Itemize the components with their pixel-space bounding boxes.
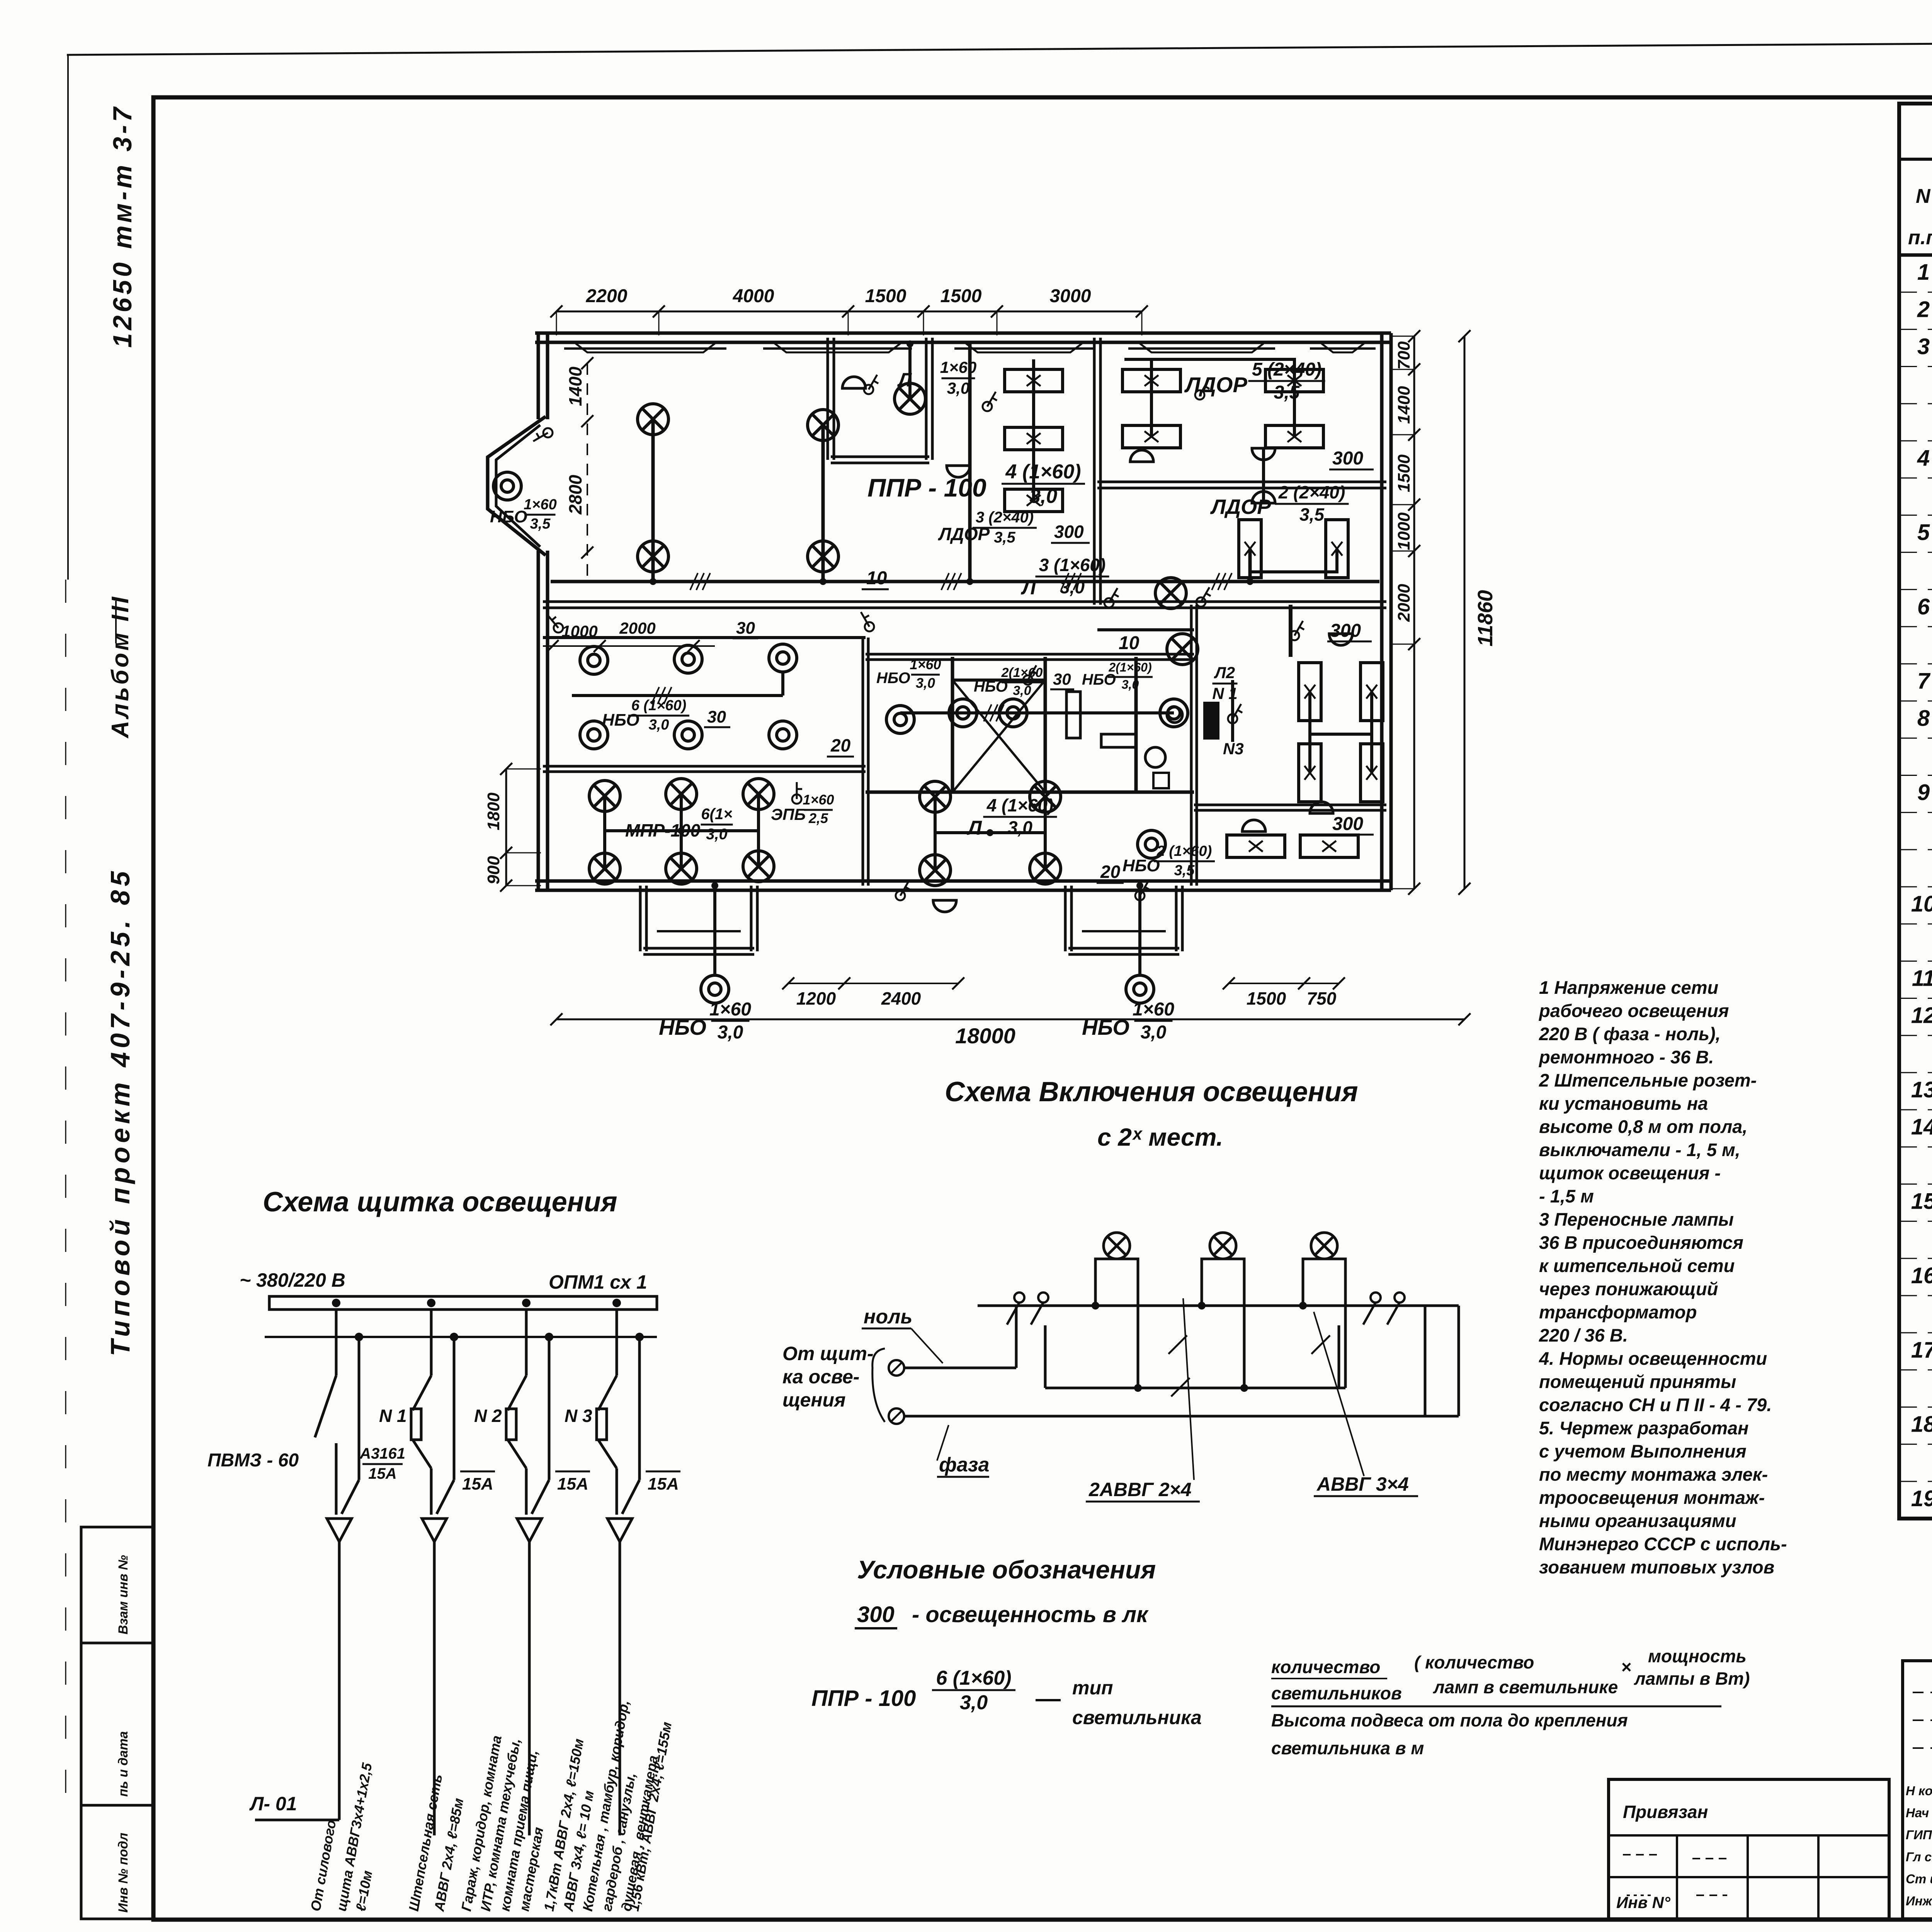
svg-text:- освещенность в лк: - освещенность в лк bbox=[912, 1602, 1149, 1627]
svg-text:НБО: НБО bbox=[876, 670, 910, 687]
svg-text:Л2: Л2 bbox=[1214, 663, 1235, 682]
svg-text:1800: 1800 bbox=[484, 793, 503, 830]
svg-text:ГИП: ГИП bbox=[1906, 1828, 1932, 1842]
ceiling fitting 6 bbox=[1329, 634, 1352, 645]
dimension chain left bbox=[484, 357, 594, 891]
label ЛДОР 2(2x40)/3,5 bbox=[1210, 482, 1349, 525]
shower stall cross box bbox=[952, 680, 1045, 792]
svg-text:18000: 18000 bbox=[955, 1024, 1015, 1048]
label 30 (top of lower-left room) bbox=[733, 619, 758, 638]
svg-text:ПВМЗ - 60: ПВМЗ - 60 bbox=[207, 1450, 299, 1471]
svg-text:1500: 1500 bbox=[1247, 988, 1286, 1009]
svg-text:N3: N3 bbox=[1223, 740, 1244, 758]
svg-text:АВВГ 3×4: АВВГ 3×4 bbox=[1316, 1473, 1409, 1495]
svg-text:1×60: 1×60 bbox=[803, 792, 834, 808]
svg-text:выключатели - 1, 5 м,: выключатели - 1, 5 м, bbox=[1539, 1139, 1740, 1160]
svg-text:Привязан: Привязан bbox=[1623, 1802, 1708, 1822]
svg-text:ЭПБ: ЭПБ bbox=[771, 805, 806, 823]
circuit lamp 1 legs bbox=[1095, 1259, 1138, 1388]
phase bus (top) bbox=[978, 1302, 1459, 1310]
main switch label ПВМЗ-60 bbox=[207, 1450, 299, 1471]
lamp L1 bbox=[638, 404, 668, 435]
svg-text:пь и дата: пь и дата bbox=[116, 1731, 131, 1797]
svg-text:НБО: НБО bbox=[659, 1015, 706, 1039]
feeder circuit 2 wires bbox=[411, 1310, 454, 1515]
svg-text:зованием типовых узлов: зованием типовых узлов bbox=[1539, 1557, 1774, 1577]
wall sconce НБО 14 bbox=[1126, 975, 1154, 1003]
svg-text:3,0: 3,0 bbox=[1141, 1022, 1167, 1043]
svg-text:НБО: НБО bbox=[1082, 1015, 1129, 1039]
label фаза bbox=[937, 1425, 989, 1477]
svg-text:6 (1×60): 6 (1×60) bbox=[631, 697, 687, 714]
svg-text:ППР - 100: ППР - 100 bbox=[867, 473, 986, 502]
svg-text:мощность: мощность bbox=[1648, 1646, 1747, 1666]
svg-text:Типовой проект 407-9-25. 85: Типовой проект 407-9-25. 85 bbox=[105, 867, 135, 1356]
wire hatch marks bbox=[651, 573, 1232, 721]
margin caption 12650 тм-т 3-7 bbox=[108, 104, 137, 348]
svg-text:300: 300 bbox=[1054, 522, 1084, 542]
svg-text:3 (2×40): 3 (2×40) bbox=[976, 509, 1034, 526]
svg-text:Ст инж: Ст инж bbox=[1906, 1872, 1932, 1886]
svg-text:13: 13 bbox=[1911, 1077, 1932, 1102]
svg-text:×: × bbox=[1621, 1657, 1631, 1677]
notes text block bbox=[1538, 977, 1787, 1577]
svg-text:2400: 2400 bbox=[881, 988, 921, 1009]
switch S12 bbox=[533, 428, 553, 441]
svg-text:1 Напряжение сети: 1 Напряжение сети bbox=[1539, 977, 1718, 998]
svg-text:2(1×60: 2(1×60 bbox=[1001, 665, 1043, 680]
wall sconce НБО 6 bbox=[674, 721, 702, 749]
feeder circuit 3 wires bbox=[506, 1310, 549, 1515]
svg-text:2: 2 bbox=[1917, 297, 1930, 322]
svg-text:светильников: светильников bbox=[1271, 1683, 1402, 1703]
switch S13 bbox=[896, 881, 910, 900]
circuit lamp 2 legs bbox=[1202, 1259, 1244, 1388]
svg-text:ламп в светильнике: ламп в светильнике bbox=[1433, 1677, 1618, 1697]
svg-text:От щит-: От щит- bbox=[782, 1343, 874, 1364]
label ЭПБ 1x60/2,5 bbox=[771, 792, 834, 826]
svg-text:7: 7 bbox=[1917, 668, 1931, 694]
switch S11 bbox=[1228, 704, 1242, 723]
label 20 (bottom) bbox=[1097, 862, 1124, 883]
svg-text:ЛДОР: ЛДОР bbox=[1210, 495, 1271, 519]
svg-text:высоте 0,8 м от пола,: высоте 0,8 м от пола, bbox=[1539, 1116, 1747, 1137]
wall sconce НБО 13 bbox=[701, 975, 729, 1003]
fluorescent fixture ЛДОР h9 bbox=[1227, 835, 1285, 857]
label 10 (right) bbox=[1115, 633, 1142, 654]
svg-text:1×60: 1×60 bbox=[524, 497, 557, 513]
svg-text:3,0: 3,0 bbox=[1013, 683, 1031, 698]
svg-text:МПР-100: МПР-100 bbox=[625, 820, 701, 840]
switch S5 bbox=[1023, 665, 1037, 685]
dimension chain top bbox=[550, 286, 1148, 335]
stamp box Инв № подл bbox=[81, 1805, 153, 1919]
window sill marks on top wall bbox=[564, 344, 1376, 352]
svg-text:2 (1×60): 2 (1×60) bbox=[1156, 843, 1212, 859]
label ЛДОР 5(2x40)/3,5 bbox=[1184, 359, 1325, 403]
feeder arrow 1 bbox=[327, 1519, 352, 1820]
svg-text:6(1×: 6(1× bbox=[701, 806, 732, 823]
fuse rating 15А bbox=[646, 1471, 680, 1493]
svg-text:светильника в м: светильника в м bbox=[1271, 1738, 1424, 1758]
cable mark АВВГ 3x4 bbox=[1311, 1312, 1418, 1496]
svg-text:Л: Л bbox=[897, 369, 912, 391]
wall sconce НБО 2 bbox=[580, 646, 608, 674]
svg-text:3,5: 3,5 bbox=[530, 516, 551, 532]
wall sconce НБО 10 bbox=[999, 699, 1027, 727]
svg-text:N 1: N 1 bbox=[1212, 684, 1237, 702]
circuit lamp 3 legs bbox=[1303, 1259, 1345, 1388]
switch S14 bbox=[1135, 881, 1150, 900]
svg-text:19: 19 bbox=[1911, 1486, 1932, 1511]
fluorescent fixture ЛДОР h4 bbox=[1122, 369, 1180, 392]
svg-text:к штепсельной сети: к штепсельной сети bbox=[1539, 1255, 1735, 1276]
svg-text:3 (1×60): 3 (1×60) bbox=[1039, 555, 1106, 575]
svg-text:300: 300 bbox=[857, 1602, 895, 1627]
svg-text:220 / 36 В.: 220 / 36 В. bbox=[1539, 1325, 1628, 1345]
lamp L11 bbox=[589, 853, 620, 884]
margin caption Типовой проект 407-9-25.85 bbox=[105, 867, 135, 1356]
svg-text:3,0: 3,0 bbox=[1122, 677, 1139, 691]
wall sconce НБО 1 bbox=[493, 472, 521, 500]
svg-text:6: 6 bbox=[1917, 594, 1930, 619]
label Л 3(1x60)/3,0 bbox=[1020, 555, 1109, 599]
svg-text:1: 1 bbox=[1917, 260, 1930, 285]
switch S10 bbox=[1104, 588, 1119, 607]
svg-text:- 1,5 м: - 1,5 м bbox=[1539, 1186, 1594, 1206]
ceiling fitting 2 bbox=[947, 466, 970, 477]
lamp L16 bbox=[920, 855, 951, 886]
svg-text:согласно СН и П II - 4 - 79: согласно СН и П II - 4 - 79. bbox=[1539, 1395, 1772, 1415]
svg-text:3,0: 3,0 bbox=[1008, 818, 1032, 838]
label НБО 1x60/3,0 (porch2) bbox=[1082, 999, 1174, 1043]
left 2-way switch bbox=[978, 1293, 1048, 1388]
svg-text:1×60: 1×60 bbox=[709, 999, 751, 1020]
label 300 (mid right) bbox=[1327, 621, 1372, 641]
svg-text:1×60: 1×60 bbox=[940, 358, 977, 376]
svg-text:4000: 4000 bbox=[733, 286, 774, 306]
source terminal ноль bbox=[889, 1306, 1016, 1376]
svg-text:10: 10 bbox=[866, 568, 887, 588]
svg-text:15: 15 bbox=[1911, 1189, 1932, 1214]
switch S6 bbox=[1196, 587, 1211, 607]
svg-text:3,5: 3,5 bbox=[1274, 383, 1300, 403]
svg-text:через понижающий: через понижающий bbox=[1539, 1279, 1718, 1299]
svg-text:18: 18 bbox=[1911, 1412, 1932, 1437]
svg-text:Л- 01: Л- 01 bbox=[249, 1793, 297, 1815]
wall sconce НБО 9 bbox=[949, 699, 977, 727]
svg-text:30: 30 bbox=[736, 619, 755, 638]
label ППР-100 4(1x60)/3,0 bbox=[867, 461, 1085, 507]
lamp L15 bbox=[1030, 781, 1061, 812]
wall sconce НБО 3 bbox=[674, 645, 702, 673]
svg-text:3,0: 3,0 bbox=[1060, 577, 1085, 597]
svg-text:НБО: НБО bbox=[490, 507, 527, 526]
margin caption Альбом III bbox=[107, 595, 134, 739]
feeder arrow 3 bbox=[517, 1519, 542, 1835]
label ноль bbox=[862, 1306, 943, 1363]
svg-text:троосвещения монтаж-: троосвещения монтаж- bbox=[1539, 1487, 1765, 1508]
source terminal фаза bbox=[889, 1306, 1459, 1424]
stamp box Взам. инв № bbox=[81, 1527, 153, 1643]
svg-text:Инжен: Инжен bbox=[1906, 1894, 1932, 1908]
wall sconce НБО 8 bbox=[886, 706, 914, 733]
interior walls bbox=[543, 338, 1386, 886]
lamp L6 bbox=[1155, 578, 1186, 609]
label 20 (left) bbox=[827, 735, 854, 757]
feeder label N 3 bbox=[565, 1406, 592, 1426]
svg-text:N: N bbox=[1916, 185, 1931, 207]
svg-text:Высота подвеса от пола: Высота подвеса от пола до крепления bbox=[1271, 1710, 1628, 1730]
svg-text:2 Штепсельные розет-: 2 Штепсельные розет- bbox=[1539, 1070, 1757, 1090]
feeder circuit 1 wires bbox=[315, 1310, 359, 1515]
switch S8 bbox=[792, 782, 802, 804]
formula ППР-100 6(1x60)/3,0 тип светильника bbox=[811, 1667, 1202, 1728]
panel box symbol (щиток) bbox=[1205, 703, 1218, 738]
svg-text:НБО: НБО bbox=[974, 678, 1008, 695]
switch S1 bbox=[548, 615, 563, 633]
busbar junction dots bbox=[332, 1299, 621, 1307]
svg-text:36 В присоединяются: 36 В присоединяются bbox=[1539, 1232, 1743, 1253]
svg-text:1000: 1000 bbox=[1395, 512, 1413, 550]
wall sconce НБО 7 bbox=[769, 721, 797, 749]
привязан table bbox=[1609, 1779, 1889, 1919]
svg-text:4. Нормы освещенности: 4. Нормы освещенности bbox=[1539, 1348, 1767, 1369]
circuit lamp 2 bbox=[1210, 1233, 1236, 1259]
svg-text:10: 10 bbox=[1119, 633, 1139, 653]
svg-text:Инв № подл: Инв № подл bbox=[116, 1833, 131, 1913]
svg-text:12: 12 bbox=[1911, 1003, 1932, 1028]
svg-text:2000: 2000 bbox=[1395, 584, 1413, 622]
svg-text:( количество: ( количество bbox=[1414, 1652, 1534, 1672]
svg-text:ка осве-: ка осве- bbox=[782, 1366, 859, 1388]
dimension chain bottom bbox=[543, 619, 1471, 1048]
label 30 + НБО 2(1x60)/3,0 (wc right) bbox=[1050, 660, 1153, 691]
switch S3 bbox=[983, 392, 997, 411]
svg-text:1×60: 1×60 bbox=[1133, 999, 1174, 1020]
porch 2 walls bbox=[1065, 886, 1182, 954]
svg-text:3,5: 3,5 bbox=[994, 529, 1015, 546]
label НБО 2(1x60)/3,5 (bottom right) bbox=[1122, 843, 1215, 879]
label 300 (bottom right room) bbox=[1329, 814, 1374, 835]
svg-text:3,0: 3,0 bbox=[706, 826, 728, 843]
bracket from labels bbox=[872, 1349, 885, 1422]
lamp L7 bbox=[1167, 634, 1198, 665]
svg-text:N 3: N 3 bbox=[565, 1406, 592, 1426]
legend 300 - освещенность в лк bbox=[855, 1602, 1149, 1628]
ceiling fitting 4 bbox=[1252, 448, 1275, 460]
floor plan outer walls bbox=[535, 333, 1391, 890]
svg-text:Инв N°: Инв N° bbox=[1616, 1893, 1671, 1912]
label ОПМ1 сх 1 bbox=[549, 1271, 647, 1293]
wall sconce НБО 5 bbox=[580, 721, 608, 749]
wall sconce НБО 4 bbox=[769, 644, 797, 672]
svg-text:2(1×60): 2(1×60) bbox=[1108, 660, 1151, 674]
svg-text:300: 300 bbox=[1330, 621, 1361, 641]
svg-text:3: 3 bbox=[1917, 334, 1930, 359]
label НБО 6(1x60)/3,0 + 30 bbox=[602, 697, 730, 733]
lamp L2 bbox=[638, 541, 668, 572]
fuse rating 15А bbox=[555, 1471, 590, 1493]
svg-text:~ 380/220 В: ~ 380/220 В bbox=[240, 1269, 345, 1291]
svg-text:3,0: 3,0 bbox=[718, 1022, 743, 1043]
svg-text:по месту монтажа элек-: по месту монтажа элек- bbox=[1539, 1464, 1768, 1485]
svg-text:Схема Включения освещения: Схема Включения освещения bbox=[945, 1077, 1358, 1107]
fluorescent fixture ЛДОР v2 bbox=[1326, 520, 1348, 578]
svg-text:30: 30 bbox=[707, 707, 726, 726]
ceiling fitting 9 bbox=[1310, 802, 1333, 813]
svg-text:От силового: От силового bbox=[308, 1819, 339, 1913]
svg-text:700: 700 bbox=[1395, 341, 1413, 370]
feeder circuit 4 wires bbox=[597, 1310, 639, 1515]
svg-text:п.п: п.п bbox=[1908, 226, 1932, 249]
svg-text:5 (2×40): 5 (2×40) bbox=[1252, 359, 1321, 380]
fluorescent fixture ЛДОР v6 bbox=[1361, 744, 1383, 802]
right 2-way switch bbox=[1339, 1293, 1405, 1388]
svg-text:15А: 15А bbox=[368, 1465, 396, 1482]
svg-text:с учетом Выполнения: с учетом Выполнения bbox=[1539, 1441, 1747, 1461]
svg-text:Минэнерго СССР с исполь-: Минэнерго СССР с исполь- bbox=[1539, 1534, 1787, 1554]
svg-text:6 (1×60): 6 (1×60) bbox=[936, 1667, 1011, 1689]
svg-text:2АВВГ 2×4: 2АВВГ 2×4 bbox=[1088, 1479, 1192, 1500]
feeder label N 2 bbox=[474, 1406, 502, 1426]
svg-text:1400: 1400 bbox=[565, 366, 585, 406]
svg-text:ными организациями: ными организациями bbox=[1539, 1510, 1736, 1531]
svg-text:1×60: 1×60 bbox=[910, 656, 941, 672]
svg-text:Нач отд: Нач отд bbox=[1906, 1806, 1932, 1820]
lamp L10 bbox=[743, 779, 774, 810]
svg-text:ℓ=10м: ℓ=10м bbox=[353, 1869, 376, 1913]
svg-text:Условные обозначения: Условные обозначения bbox=[857, 1555, 1156, 1584]
svg-text:220 В ( фаза - ноль),: 220 В ( фаза - ноль), bbox=[1539, 1024, 1721, 1044]
svg-text:300: 300 bbox=[1332, 814, 1363, 834]
ceiling fitting 7 bbox=[1242, 820, 1265, 832]
feeder arrow 2 bbox=[422, 1519, 447, 1835]
svg-text:300: 300 bbox=[1332, 448, 1363, 469]
switch S4 bbox=[1195, 380, 1209, 400]
lamp L3 bbox=[808, 410, 838, 440]
entrance bay (left pentagon) bbox=[488, 417, 546, 555]
svg-text:30: 30 bbox=[1053, 670, 1071, 688]
svg-text:ОПМ1 сх 1: ОПМ1 сх 1 bbox=[549, 1271, 647, 1293]
svg-text:ППР - 100: ППР - 100 bbox=[811, 1686, 916, 1711]
fluorescent fixture ЛДОР h2 bbox=[1005, 427, 1063, 450]
label НБО 1x60/3,0 (washroom) bbox=[876, 656, 941, 691]
switch S2 bbox=[864, 375, 878, 394]
svg-text:11: 11 bbox=[1912, 966, 1932, 991]
label НБО 1x60/3,0 (porch1) bbox=[659, 999, 751, 1043]
svg-text:1,56 кВт; АВВГ 2х4; ℓ=155м: 1,56 кВт; АВВГ 2х4; ℓ=155м bbox=[626, 1721, 675, 1912]
busbar box bbox=[269, 1296, 657, 1310]
cable mark 2АВВГ 2x4 bbox=[1086, 1298, 1200, 1502]
svg-text:5: 5 bbox=[1917, 520, 1930, 545]
feeder destination rotated labels bbox=[308, 1699, 675, 1913]
svg-text:3,0: 3,0 bbox=[1029, 485, 1057, 507]
svg-text:15А: 15А bbox=[462, 1475, 493, 1493]
svg-text:светильника: светильника bbox=[1072, 1707, 1202, 1728]
legend Условные обозначения bbox=[857, 1555, 1156, 1584]
svg-text:3,0: 3,0 bbox=[649, 717, 669, 733]
label МПР-100 6(1x/3,0 bbox=[625, 806, 733, 843]
fluorescent fixture ЛДОР v1 bbox=[1239, 520, 1261, 578]
svg-text:щиток освещения -: щиток освещения - bbox=[1539, 1163, 1721, 1183]
svg-text:Взам инв №: Взам инв № bbox=[116, 1555, 131, 1634]
svg-text:1000: 1000 bbox=[561, 622, 597, 640]
lamp L8 bbox=[589, 781, 620, 811]
svg-text:9: 9 bbox=[1917, 780, 1930, 805]
svg-text:Альбом III: Альбом III bbox=[107, 595, 134, 739]
svg-text:2800: 2800 bbox=[565, 474, 585, 515]
table rows text bbox=[1911, 252, 1932, 1512]
ceiling fitting 8 bbox=[933, 900, 956, 912]
feeder label N 1 bbox=[379, 1406, 407, 1426]
svg-text:ремонтного - 36 В.: ремонтного - 36 В. bbox=[1538, 1047, 1714, 1067]
fuse rating 15А bbox=[460, 1471, 495, 1493]
svg-text:17: 17 bbox=[1911, 1337, 1932, 1362]
wiring main corridor run bbox=[551, 344, 1379, 974]
svg-text:2 (2×40): 2 (2×40) bbox=[1278, 482, 1345, 502]
fluorescent fixture ЛДОР h8 bbox=[1300, 835, 1358, 857]
svg-text:3,0: 3,0 bbox=[916, 675, 935, 691]
svg-text:900: 900 bbox=[484, 856, 503, 884]
table column headers bbox=[1908, 166, 1932, 255]
title Схема включения освещения с 2х мест bbox=[945, 1077, 1358, 1151]
svg-text:тип: тип bbox=[1072, 1677, 1113, 1699]
fluorescent fixture ЛДОР h5 bbox=[1265, 369, 1323, 392]
svg-text:лампы в Вт): лампы в Вт) bbox=[1634, 1668, 1750, 1689]
dimension chain right bbox=[1391, 330, 1497, 895]
svg-text:3 Переносные лампы: 3 Переносные лампы bbox=[1539, 1209, 1734, 1230]
svg-text:1500: 1500 bbox=[940, 286, 982, 306]
svg-text:750: 750 bbox=[1307, 988, 1337, 1009]
svg-text:1500: 1500 bbox=[865, 286, 906, 306]
wall sconce НБО 12 bbox=[1138, 830, 1165, 858]
svg-text:N 1: N 1 bbox=[379, 1406, 407, 1426]
svg-text:15А: 15А bbox=[557, 1475, 588, 1493]
svg-text:14: 14 bbox=[1911, 1114, 1932, 1139]
svg-text:рабочего освещения: рабочего освещения bbox=[1538, 1000, 1729, 1021]
svg-text:1500: 1500 bbox=[1395, 454, 1413, 492]
ceiling fitting 1 bbox=[842, 377, 866, 388]
circuit lamp 1 bbox=[1104, 1233, 1130, 1259]
switch S7 bbox=[1290, 621, 1304, 640]
switch S9 bbox=[861, 612, 874, 631]
svg-text:3,0: 3,0 bbox=[960, 1691, 988, 1714]
feeder Л-01 tail bbox=[249, 1793, 339, 1820]
svg-text:Л: Л bbox=[966, 817, 982, 839]
svg-text:Схема щитка освещения: Схема щитка освещения bbox=[263, 1187, 617, 1218]
svg-text:20: 20 bbox=[1100, 862, 1121, 882]
label Л 1x60/3,0 bbox=[897, 358, 976, 397]
fluorescent fixture ЛДОР h7 bbox=[1265, 425, 1323, 448]
svg-text:4 (1×60): 4 (1×60) bbox=[986, 795, 1054, 815]
svg-text:3000: 3000 bbox=[1050, 286, 1091, 306]
lamp L17 bbox=[1030, 853, 1061, 884]
formula explanation right bbox=[1271, 1646, 1750, 1758]
label НБО 1x60/3,5 (bay) bbox=[490, 497, 557, 532]
ceiling fitting 5 bbox=[1252, 492, 1275, 503]
ceiling fitting 3 bbox=[1130, 450, 1153, 462]
label N3 bbox=[1223, 740, 1244, 758]
svg-text:ЛДОР: ЛДОР bbox=[1184, 372, 1247, 397]
svg-text:Н контролер: Н контролер bbox=[1906, 1784, 1932, 1798]
svg-text:помещений приняты: помещений приняты bbox=[1539, 1371, 1736, 1392]
svg-text:А3161: А3161 bbox=[359, 1445, 405, 1462]
svg-text:3,5: 3,5 bbox=[1299, 505, 1325, 525]
lamp L5 bbox=[895, 383, 925, 414]
svg-text:2000: 2000 bbox=[619, 619, 655, 637]
svg-text:12650 тм-т 3-7: 12650 тм-т 3-7 bbox=[108, 104, 137, 348]
